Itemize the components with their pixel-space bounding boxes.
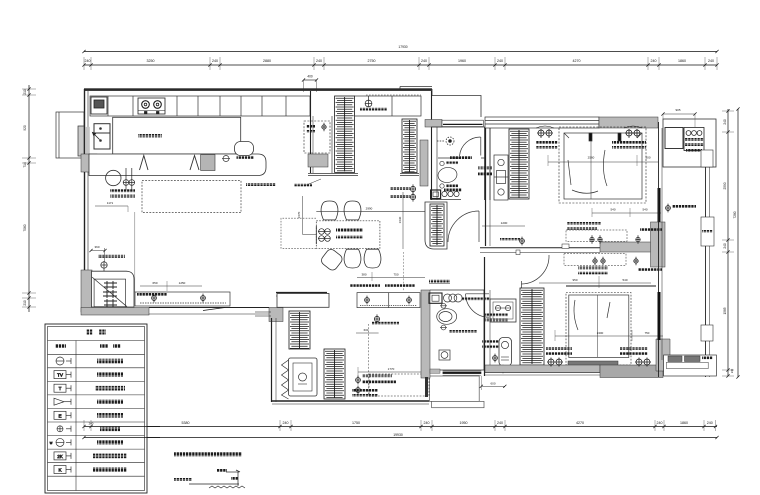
bath1 window band top [442,120,483,126]
svg-text:3250: 3250 [147,59,155,63]
legend row8 wall AC socket [54,452,71,460]
corridor dashed rect above [566,230,627,242]
balcony mid socket [666,204,671,213]
svg-text:4270: 4270 [576,421,584,425]
bedroom1 top wall gray right [599,117,658,128]
legend row5 network socket [54,411,71,419]
corridor dim 1200 [482,221,525,226]
living tv label [137,293,167,296]
bath2 labels [462,298,490,301]
bath1 washbasin vanity [431,190,460,199]
living wall label [98,255,125,258]
bath2 toilet fixture [440,325,447,330]
wall left lower [85,172,89,272]
kitchen dim 1171 [95,201,135,292]
wall top main [84,88,432,91]
bedroom2 bed [568,295,629,366]
dining table labels [336,229,363,232]
svg-text:w: w [50,441,53,445]
svg-text:5380: 5380 [182,421,190,425]
kitchen island label [138,134,162,137]
dim 600 entry2 [480,376,507,390]
living tv cabinet [135,292,230,306]
bath1 door arc [460,137,481,156]
svg-text:950: 950 [572,278,577,282]
svg-text:7280: 7280 [733,211,737,218]
bath1 left wall [432,91,438,200]
bedroom2 door arc [522,255,550,288]
storage light [374,314,379,323]
closet hall 2 [402,119,417,173]
bedroom2 dim line 2400 750 [555,330,663,341]
legend row4 phone socket [54,398,71,405]
bedroom2 wardrobe comb [520,288,544,365]
kitchen fridge cabinet [94,124,110,149]
pillar right corridor [651,222,666,267]
balcony lower equipment zone [664,355,717,376]
bath2 toilet [437,309,457,325]
dimension total top 17930 [82,45,718,53]
legend header cells [55,344,66,348]
bedroom2 left wall [485,257,491,376]
entry label underline [429,280,450,283]
dimension segments top [82,57,718,70]
living label socket400 [246,183,276,186]
balcony top box outline [663,119,716,167]
svg-text:1670: 1670 [297,211,301,218]
storage dim 600 [356,328,379,333]
bath1 vanity label [444,189,462,192]
svg-text:240: 240 [707,421,713,425]
bath1 wall label [450,156,472,159]
dining chairs top [321,201,361,220]
bedroom1 dim 2560 [548,155,658,166]
bedroom1 socket cluster left [536,126,554,138]
svg-text:240: 240 [424,421,430,425]
svg-text:714: 714 [23,162,27,168]
svg-text:240: 240 [212,59,218,63]
kitchen sink labels [110,189,135,192]
wall pier bottom center gray [269,308,283,322]
legend row3 thermostat [54,384,71,392]
svg-text:1200: 1200 [501,221,508,225]
svg-text:1630: 1630 [398,216,402,223]
bedroom2 socket cluster left [547,358,563,367]
dining sockets [316,226,330,244]
entry gray stub [430,369,440,373]
window storage left [255,312,271,316]
corridor wall below bedroom1 [480,244,600,255]
bedroom1 socket cluster right [624,126,642,138]
entry shoe cabinet comb [425,202,447,249]
kitchen sink basin circle [106,170,121,185]
living tv sockets [152,294,157,303]
storage dim 1770 [358,367,429,377]
bedroom2 washer labels [484,314,508,317]
storage door leaf [425,377,428,397]
kitchen bar counter [89,154,266,176]
dining dashed zone [281,218,316,248]
svg-text:240: 240 [497,421,503,425]
svg-text:210: 210 [23,300,27,306]
svg-text:240: 240 [421,59,427,63]
bedroom1 narrow cabinet [494,155,508,200]
storage closet comb1 [289,311,310,349]
bedroom2 bottom wall gray [485,365,600,373]
bath1 room walls [430,127,490,200]
svg-text:E: E [58,413,61,418]
dim lines over legend [82,425,160,439]
svg-text:600: 600 [364,328,369,332]
dimension right vertical segments [722,109,734,378]
storage top wall [276,293,327,297]
upper cabinets right of wall [355,96,421,116]
svg-text:1860: 1860 [678,59,686,63]
svg-text:1171: 1171 [107,201,114,205]
svg-text:2560: 2560 [588,156,595,160]
bath2 coil heater [444,294,463,302]
storage cabinet top box [277,294,329,308]
dim 905 [661,108,696,127]
hall socket label [360,108,387,111]
corridor dashed rect below [564,254,626,266]
storage closet comb2 [324,349,345,399]
svg-text:750: 750 [645,331,650,335]
svg-text:19930: 19930 [393,433,403,437]
bedroom1 wall labels [478,167,492,170]
bedroom2 socket cluster right [635,358,651,367]
svg-text:540: 540 [622,278,627,282]
entry step [432,401,484,407]
hall ceiling light [365,96,372,107]
storage sockets stack [356,376,361,385]
dim 1630 entry [398,192,403,249]
bedroom1 wardrobe comb [509,129,529,199]
svg-text:2590: 2590 [723,182,727,189]
closet hall 1 [335,96,355,172]
living dim 650 1250 [140,281,202,291]
entry door dark band [443,371,482,375]
wall kitchen-hall divider [311,91,333,173]
svg-text:240: 240 [723,243,727,249]
legend title [86,330,93,335]
bedroom1 top wall window band [485,117,599,128]
svg-text:240: 240 [708,59,714,63]
kitchen stool [235,142,254,156]
svg-text:750: 750 [393,273,398,277]
bath2 symbol box [439,350,450,360]
bedroom1 left wall [486,128,491,246]
svg-text:920: 920 [23,125,27,131]
svg-text:240: 240 [657,421,663,425]
bath2 basin fixture [440,303,447,308]
top duct dashed [366,94,421,96]
svg-text:1960: 1960 [458,59,466,63]
bedroom1 right wall black bar [658,188,661,240]
wall pier gray kitchen divider [308,154,328,167]
wall central vertical gray [421,290,430,378]
legend row9 floor AC socket [54,466,71,474]
bedroom2 socket labels [546,347,572,350]
planter hash glyphs [103,281,117,307]
kitchen top cabinet row [90,96,310,116]
dining chairs bottom [319,247,380,272]
wall storage left [272,318,277,402]
entry sockets [410,184,415,193]
svg-text:210: 210 [23,89,27,95]
bedroom2 heater labels [482,340,499,343]
svg-text:TV: TV [57,373,64,378]
balcony window bar dark [658,292,661,340]
wall top-right step outline [400,87,481,118]
scale detail figure [189,470,245,488]
counter socket label [237,156,254,159]
legend table [45,324,147,493]
svg-text:240: 240 [497,59,503,63]
dimension 400 kitchen top [302,75,318,93]
bath1 pier gray left [420,140,428,186]
svg-text:540: 540 [610,208,615,212]
bath1 pier gray top [425,120,442,128]
living dashed ceiling rect [142,181,241,213]
storage counter sockets [365,296,370,305]
bath2 walls [430,290,484,370]
svg-text:500: 500 [645,156,650,160]
bedroom2 wall sockets [493,354,498,363]
svg-text:2990: 2990 [366,207,373,211]
living dim 360 [89,245,106,252]
dimension segments bottom [82,420,717,431]
dining table dotted [316,221,380,249]
svg-text:2750: 2750 [368,59,376,63]
wall right narrow double [706,167,710,377]
corridor labels [567,222,601,225]
entry dashed vline [403,252,405,291]
svg-text:905: 905 [675,108,680,112]
legend row6 junction box [57,426,71,432]
storage dashed vline [368,324,370,396]
storage dashed zone [369,374,429,396]
svg-text:380: 380 [361,273,366,277]
kitchen island counter [113,117,241,154]
svg-text:240: 240 [730,368,734,373]
bath1 toilet [437,161,458,188]
svg-text:2K: 2K [57,454,64,459]
wall pier left mid [81,154,97,172]
corridor sockets [590,235,594,243]
bedroom1 dim 540 540 [592,208,661,218]
svg-text:540: 540 [642,208,647,212]
storage counter top [357,293,420,308]
svg-text:240: 240 [651,59,657,63]
bedroom2 wall bottom lines [485,373,600,376]
svg-text:1770: 1770 [388,367,395,371]
bath1 ceiling light [437,137,454,145]
kitchen label leader [304,179,321,186]
storage counter labels [350,284,380,287]
wall left upper [85,89,89,159]
fridge dashed [304,121,330,153]
bedroom2 top wall [566,285,656,287]
svg-text:600: 600 [490,381,495,385]
svg-text:4270: 4270 [573,59,581,63]
planter corner bottom-left [92,271,135,307]
wall bottom living gray [81,308,149,316]
svg-text:7060: 7060 [23,224,27,231]
bath2 washbasin [429,293,442,303]
svg-text:240: 240 [723,119,727,125]
bedroom1 labels left [536,141,558,144]
svg-text:240: 240 [283,421,289,425]
svg-text:240: 240 [85,59,91,63]
dim 380 750 under chairs [357,272,425,281]
balcony washer box [684,128,704,151]
bedroom2 bed dashed [566,293,631,366]
bedroom1 bed [564,133,642,199]
dimension total bottom 19930 [82,433,718,439]
dining dim 1670 [297,196,316,235]
sloped tv wall line [203,308,225,311]
kitchen sink gray [201,155,215,171]
wall pier left bottom gray [81,270,92,312]
balcony equip box left [665,128,683,149]
kitchen sink sockets [123,168,134,190]
wall bottom living [149,308,269,315]
dims 950 540 below [539,276,651,288]
svg-text:1950: 1950 [460,421,468,425]
svg-text:2400: 2400 [597,331,604,335]
entry platform [430,376,480,401]
bedroom2 washer box [490,299,516,322]
dimension right vertical total [733,107,740,378]
dining dim 2990 [316,207,425,212]
bay window left [56,112,84,158]
dimension left vertical [22,85,36,312]
pendant fold marks [140,156,200,171]
svg-text:240: 240 [316,59,322,63]
legend row1 power socket [56,357,71,365]
legend row7 water heater socket [50,438,71,446]
storage washer [282,358,318,399]
svg-text:400: 400 [307,75,313,79]
kitchen faucet [222,156,230,162]
kitchen hob stove [138,98,165,114]
svg-text:650: 650 [152,281,157,285]
title text [174,452,242,457]
wall right pier bumps [701,150,714,341]
wall storage bottom [272,401,429,404]
bedroom1 labels right [612,141,646,144]
bedroom1 bed dashed [559,127,646,203]
svg-text:360: 360 [94,245,99,249]
planter light stem [104,248,106,262]
fridge leader arrow [93,133,100,140]
bedroom2 water heater [499,338,512,367]
svg-text:T: T [59,386,62,391]
kitchen small appliance box top-left [91,97,107,114]
svg-text:1750: 1750 [352,421,360,425]
svg-text:17930: 17930 [398,45,407,49]
bath2 door arc [466,294,489,317]
svg-text:2880: 2880 [263,59,271,63]
svg-text:1860: 1860 [680,421,688,425]
bedroom wall inner right [659,122,663,377]
corridor gray wall band [600,242,655,252]
planter light [101,261,107,271]
svg-text:1250: 1250 [179,281,186,285]
corridor door arc [448,211,479,242]
bedroom2 right gray wedge [656,339,670,371]
svg-text:1585: 1585 [723,307,727,314]
legend row2 tv socket [54,371,71,379]
